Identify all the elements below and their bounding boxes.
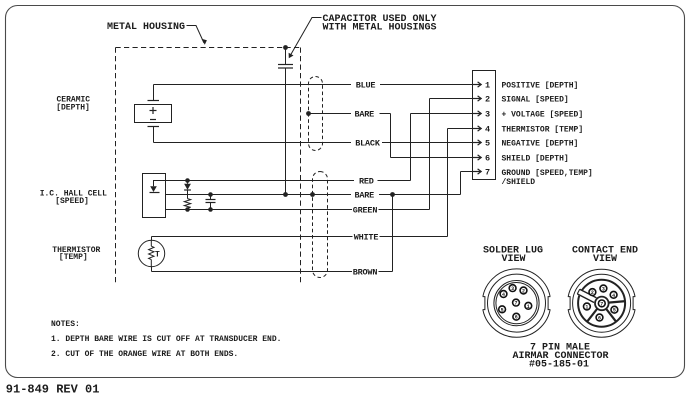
- svg-text:#05-185-01: #05-185-01: [529, 359, 589, 370]
- contact end spokes: [587, 301, 626, 322]
- svg-text:7: 7: [485, 167, 490, 177]
- svg-text:SIGNAL [SPEED]: SIGNAL [SPEED]: [502, 95, 569, 104]
- pin 3: [473, 109, 490, 119]
- svg-text:SHIELD [DEPTH]: SHIELD [DEPTH]: [502, 154, 569, 163]
- svg-text:3: 3: [511, 286, 514, 292]
- METAL HOUSING label: [107, 22, 207, 45]
- svg-text:6: 6: [598, 316, 601, 322]
- svg-text:5: 5: [613, 308, 616, 314]
- wire BARE (depth) row: [309, 109, 475, 157]
- pin function labels: [502, 81, 593, 187]
- svg-text:NOTES:: NOTES:: [51, 320, 80, 329]
- capacitor C1 (housing capacitor): [278, 48, 293, 195]
- svg-text:GREEN: GREEN: [353, 205, 378, 215]
- wire GREEN row: [166, 99, 475, 216]
- svg-text:[DEPTH]: [DEPTH]: [56, 103, 90, 112]
- svg-text:BARE: BARE: [354, 109, 374, 119]
- wire BROWN row: [152, 267, 393, 277]
- svg-text:GROUND [SPEED,TEMP]: GROUND [SPEED,TEMP]: [502, 169, 593, 178]
- svg-text:[SPEED]: [SPEED]: [55, 197, 89, 206]
- svg-text:1: 1: [485, 80, 490, 90]
- contact end view title: [572, 245, 638, 265]
- solder lug view connector face: [481, 269, 553, 337]
- svg-text:BARE: BARE: [354, 190, 374, 200]
- connector pin box: [473, 71, 496, 180]
- svg-text:4: 4: [502, 292, 505, 298]
- ceramic element (depth transducer): [135, 85, 172, 143]
- wire RED row: [166, 114, 475, 187]
- solder lug view title: [483, 245, 543, 265]
- node: depth shield drain: [306, 111, 311, 116]
- wire BLACK row: [154, 138, 475, 148]
- connector caption: [512, 342, 608, 370]
- pin 5: [473, 138, 490, 148]
- svg-text:RED: RED: [359, 176, 374, 186]
- contact end pins: [584, 285, 618, 321]
- I.C. hall cell box: [143, 174, 166, 218]
- svg-text:1: 1: [585, 305, 588, 311]
- svg-text:WHITE: WHITE: [354, 232, 379, 242]
- svg-text:7: 7: [600, 301, 603, 307]
- svg-text:METAL HOUSING: METAL HOUSING: [107, 22, 185, 33]
- CAPACITOR note: [289, 14, 437, 58]
- svg-text:1. DEPTH BARE WIRE IS CUT OFF: 1. DEPTH BARE WIRE IS CUT OFF AT TRANSDU…: [51, 335, 281, 344]
- contact end keyway slot: [577, 289, 596, 303]
- node: bare/brown junction: [390, 192, 395, 197]
- CERAMIC [DEPTH] label: [56, 96, 90, 113]
- svg-text:2: 2: [485, 94, 490, 104]
- svg-text:5: 5: [485, 138, 490, 148]
- svg-text:2: 2: [591, 290, 594, 296]
- svg-text:T: T: [155, 250, 160, 259]
- pin 6: [473, 153, 490, 163]
- svg-text:POSITIVE [DEPTH]: POSITIVE [DEPTH]: [502, 81, 579, 90]
- node: speed shield drain: [310, 192, 315, 197]
- notes: [51, 320, 281, 359]
- node: housing-capacitor junction: [283, 45, 288, 50]
- svg-text:91-849 REV 01: 91-849 REV 01: [6, 383, 100, 395]
- svg-text:2. CUT OF THE ORANGE WIRE AT B: 2. CUT OF THE ORANGE WIRE AT BOTH ENDS.: [51, 350, 238, 359]
- capacitor C2 column: [206, 192, 216, 212]
- cable shield oval (speed/temp group): [313, 172, 328, 278]
- svg-text:6: 6: [485, 153, 490, 163]
- solder lug pins: [499, 285, 532, 321]
- svg-text:4: 4: [612, 293, 615, 299]
- svg-text:6: 6: [515, 315, 518, 321]
- node: capacitor to bare junction: [283, 192, 288, 197]
- contact end hub: [595, 297, 609, 311]
- svg-text:BLUE: BLUE: [356, 80, 376, 90]
- wire BARE (speed/temp) row: [166, 172, 475, 201]
- svg-text:VIEW: VIEW: [501, 254, 525, 265]
- svg-text:3: 3: [485, 109, 490, 119]
- contact end view connector face: [566, 269, 637, 337]
- I.C. HALL CELL [SPEED] label: [40, 189, 107, 206]
- cable shield oval (depth pair): [309, 77, 323, 151]
- svg-text:7: 7: [514, 301, 517, 307]
- thermistor RT1: [138, 237, 164, 272]
- svg-text:BROWN: BROWN: [353, 267, 378, 277]
- svg-text:5: 5: [501, 307, 504, 313]
- svg-text:1: 1: [527, 304, 530, 310]
- diode D1 with resistor R1 column: [184, 178, 191, 212]
- svg-text:BLACK: BLACK: [355, 138, 381, 148]
- svg-text:VIEW: VIEW: [593, 254, 617, 265]
- svg-text:/SHIELD: /SHIELD: [502, 178, 536, 187]
- wire brown-to-bare vertical: [392, 195, 394, 272]
- wire WHITE row: [152, 129, 475, 243]
- svg-text:NEGATIVE [DEPTH]: NEGATIVE [DEPTH]: [502, 139, 579, 148]
- svg-text:WITH METAL HOUSINGS: WITH METAL HOUSINGS: [323, 23, 437, 34]
- svg-text:2: 2: [522, 289, 525, 295]
- wire BLUE row: [154, 80, 475, 90]
- metal housing dashed enclosure: [116, 48, 301, 286]
- pin 1: [473, 80, 490, 90]
- svg-text:THERMISTOR [TEMP]: THERMISTOR [TEMP]: [502, 125, 584, 134]
- pin 4: [473, 124, 490, 134]
- THERMISTOR [TEMP] label: [52, 246, 100, 262]
- pin 7: [473, 167, 490, 177]
- svg-text:+ VOLTAGE [SPEED]: + VOLTAGE [SPEED]: [502, 110, 584, 119]
- svg-text:3: 3: [602, 287, 605, 293]
- pin 2: [473, 94, 490, 104]
- svg-text:[TEMP]: [TEMP]: [59, 253, 88, 262]
- svg-text:4: 4: [485, 124, 490, 134]
